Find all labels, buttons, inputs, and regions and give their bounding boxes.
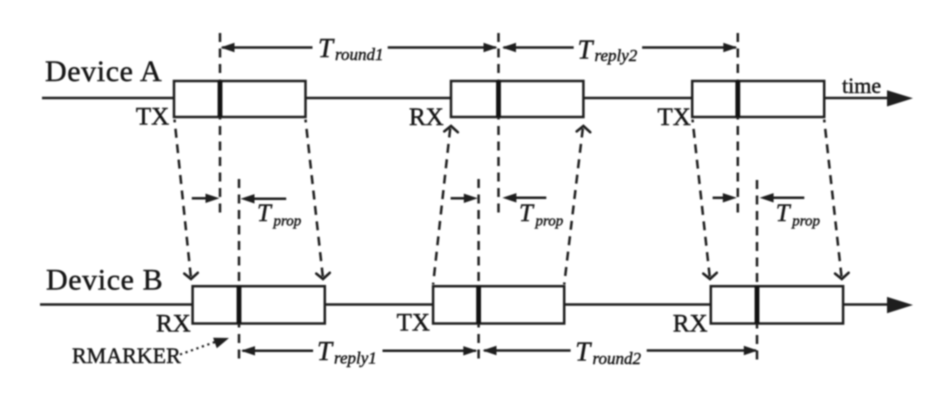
- Tround2 left arrowhead: [483, 346, 497, 355]
- svg-text:T: T: [578, 35, 595, 65]
- arrowhead up at A2 left edge: [444, 126, 458, 132]
- Tprop arrow set 2 right-pointing line: [451, 197, 465, 200]
- svg-text:T: T: [257, 200, 273, 227]
- Tprop set 2 right arrowhead: [464, 194, 478, 203]
- Tprop set 1 left arrowhead: [241, 194, 255, 203]
- svg-text:RMARKER: RMARKER: [72, 343, 181, 368]
- RMARKER bar in box B2: [476, 286, 481, 323]
- svg-text:TX: TX: [658, 104, 691, 131]
- Tprop set 3 right arrowhead: [723, 193, 737, 202]
- svg-text:TX: TX: [136, 104, 169, 131]
- Tround1 right arrowhead: [484, 43, 498, 52]
- Treply2 arrow line left segment: [504, 46, 574, 49]
- svg-text:reply2: reply2: [595, 46, 638, 65]
- arrowhead up at A2 right edge: [577, 126, 591, 132]
- Tround2 arrow line left segment: [484, 349, 571, 352]
- TX frame box A3 on Device A: [692, 81, 824, 117]
- Tprop set 2 left arrowhead: [502, 193, 516, 202]
- Tprop set 3 left arrowhead: [760, 193, 774, 202]
- dashed slant wire A1 left edge to B1 left edge: [175, 120, 191, 277]
- Treply1 arrow line right segment: [383, 350, 477, 353]
- TX frame box B2 on Device B: [433, 286, 564, 323]
- svg-text:T: T: [317, 336, 334, 366]
- dashed vertical at B1 RMARKER (x=239): [238, 179, 241, 364]
- dashed vertical at B3 RMARKER (x=757): [756, 180, 759, 362]
- Device B timeline arrowhead: [887, 297, 913, 313]
- Device B timeline: [40, 303, 890, 306]
- Device A timeline: [42, 97, 890, 100]
- svg-text:RX: RX: [673, 311, 708, 338]
- Tround2 arrow line right segment: [647, 349, 756, 352]
- arrowhead down at B3 right edge: [835, 273, 849, 279]
- svg-text:prop: prop: [535, 214, 564, 230]
- svg-text:TX: TX: [397, 310, 430, 337]
- Tprop arrow set 2 left-pointing line: [515, 197, 546, 200]
- Treply2 right arrowhead: [723, 43, 737, 52]
- Treply2 left arrowhead: [502, 43, 516, 52]
- Treply2 arrow line right segment: [642, 46, 736, 49]
- dashed vertical at TX3 RMARKER on A (x=737.8): [737, 33, 740, 219]
- svg-text:Device B: Device B: [46, 264, 163, 297]
- Tprop arrow set 1 left-pointing line: [253, 198, 286, 201]
- svg-text:prop: prop: [273, 214, 302, 230]
- dashed slant wire B2 left edge to A2 left edge: [433, 129, 450, 285]
- dashed slant wire A1 right edge to B1 right edge: [306, 120, 323, 277]
- Tprop arrow set 3 right-pointing line: [713, 197, 724, 200]
- dashed vertical at TX1 RMARKER (x=220): [219, 33, 222, 215]
- RX frame box B3 on Device B: [711, 286, 843, 323]
- arrowhead down at B1 right edge: [316, 273, 330, 279]
- Tround1 arrow line left segment: [222, 46, 313, 49]
- RMARKER dotted pointer line: [180, 342, 215, 355]
- svg-text:Device A: Device A: [45, 55, 162, 88]
- svg-text:T: T: [575, 337, 592, 367]
- svg-text:round1: round1: [335, 45, 384, 64]
- dashed slant wire A3 right edge to B3 right edge: [824, 120, 841, 277]
- TX frame box A1 on Device A: [174, 81, 306, 117]
- svg-text:RX: RX: [156, 311, 191, 338]
- RMARKER bar in box A2: [496, 81, 501, 117]
- dashed vertical at B2 RMARKER (x=478.6): [477, 179, 480, 364]
- svg-text:reply1: reply1: [334, 349, 377, 368]
- Treply1 right arrowhead: [463, 346, 477, 355]
- arrowhead down at B3 left edge: [703, 273, 717, 279]
- RMARKER bar in box B3: [755, 286, 760, 323]
- svg-text:T: T: [519, 200, 535, 227]
- Tround1 arrow line right segment: [388, 46, 496, 49]
- arrowhead down at B1 left edge: [184, 273, 198, 279]
- Tround2 right arrowhead: [744, 346, 758, 355]
- svg-text:RX: RX: [409, 104, 444, 131]
- RX frame box B1 on Device B: [193, 286, 325, 323]
- RMARKER bar in box A1: [218, 81, 223, 117]
- svg-text:round2: round2: [593, 349, 642, 368]
- RX frame box A2 on Device A: [451, 81, 583, 117]
- svg-text:T: T: [776, 200, 792, 227]
- svg-text:T: T: [318, 33, 335, 63]
- Treply1 left arrowhead: [241, 346, 255, 355]
- dashed slant wire A3 left edge to B3 left edge: [693, 120, 710, 277]
- Tprop set 1 right arrowhead: [206, 194, 220, 203]
- RMARKER pointer arrowhead: [213, 338, 229, 348]
- Tprop arrow set 3 left-pointing line: [772, 197, 804, 200]
- svg-text:prop: prop: [791, 214, 820, 230]
- svg-text:time: time: [842, 73, 881, 98]
- Tprop arrow set 1 right-pointing line: [192, 197, 207, 200]
- Device A timeline arrowhead: [887, 90, 913, 106]
- dashed vertical at RX2 RMARKER on A (x=498.5): [497, 33, 500, 216]
- RMARKER bar in box B1: [237, 286, 242, 323]
- Treply1 arrow line left segment: [243, 350, 314, 353]
- dashed slant wire B2 right edge to A2 right edge: [564, 129, 583, 285]
- Tround1 left arrowhead: [221, 43, 235, 52]
- RMARKER bar in box A3: [735, 81, 740, 117]
